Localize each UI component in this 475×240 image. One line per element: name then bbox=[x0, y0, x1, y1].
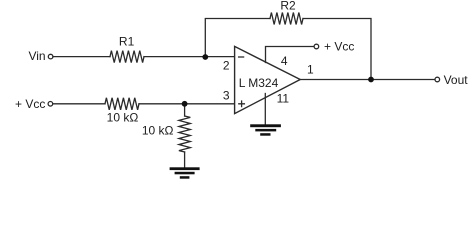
wire vertical resistor to ground bbox=[184, 152, 186, 168]
op-amp minus input sign bbox=[239, 56, 244, 58]
junction node R1/feedback bbox=[202, 54, 208, 60]
wire R1 to op-amp inverting input (pin 2) bbox=[144, 56, 235, 58]
wire +Vcc to 10k resistor bbox=[53, 103, 105, 105]
svg-text:+ Vcc: + Vcc bbox=[324, 40, 354, 54]
terminal +Vcc left bbox=[48, 102, 53, 107]
svg-text:L M324: L M324 bbox=[239, 76, 279, 90]
wire feedback top left segment bbox=[205, 19, 270, 58]
svg-text:R1: R1 bbox=[119, 35, 135, 49]
resistor R1 bbox=[110, 51, 144, 63]
resistor R2 bbox=[270, 13, 303, 25]
op-amp U1 triangle bbox=[235, 46, 301, 113]
svg-text:+ Vcc: + Vcc bbox=[15, 97, 45, 111]
svg-text:10 kΩ: 10 kΩ bbox=[107, 110, 139, 124]
svg-text:2: 2 bbox=[223, 59, 230, 73]
svg-text:11: 11 bbox=[277, 92, 290, 106]
terminal +Vcc right bbox=[314, 44, 319, 49]
wire output pin 1 bbox=[300, 79, 435, 81]
junction node 10k divider bbox=[182, 101, 188, 107]
resistor 10k vertical bbox=[184, 104, 186, 116]
svg-text:R2: R2 bbox=[280, 0, 296, 13]
svg-text:1: 1 bbox=[307, 62, 314, 76]
pin 11 wire to ground bbox=[264, 94, 266, 125]
svg-text:3: 3 bbox=[223, 89, 230, 103]
pin 4 wire to +Vcc bbox=[266, 47, 315, 63]
ground below op-amp pin 11 bbox=[250, 124, 281, 135]
svg-text:Vout: Vout bbox=[444, 73, 469, 87]
resistor 10k horizontal bbox=[105, 98, 139, 110]
op-amp plus input sign bbox=[239, 101, 245, 107]
svg-text:10 kΩ: 10 kΩ bbox=[142, 124, 174, 138]
wire Vin to R1 bbox=[53, 56, 110, 58]
terminal Vin bbox=[48, 54, 53, 59]
svg-text:4: 4 bbox=[281, 54, 288, 68]
wire 10k to op-amp non-inverting input (pin 3) bbox=[139, 103, 235, 105]
ground below divider bbox=[170, 167, 200, 178]
svg-text:Vin: Vin bbox=[28, 49, 45, 63]
wire feedback top right segment bbox=[303, 19, 371, 80]
junction node output/feedback bbox=[368, 77, 374, 83]
terminal Vout bbox=[435, 77, 440, 82]
